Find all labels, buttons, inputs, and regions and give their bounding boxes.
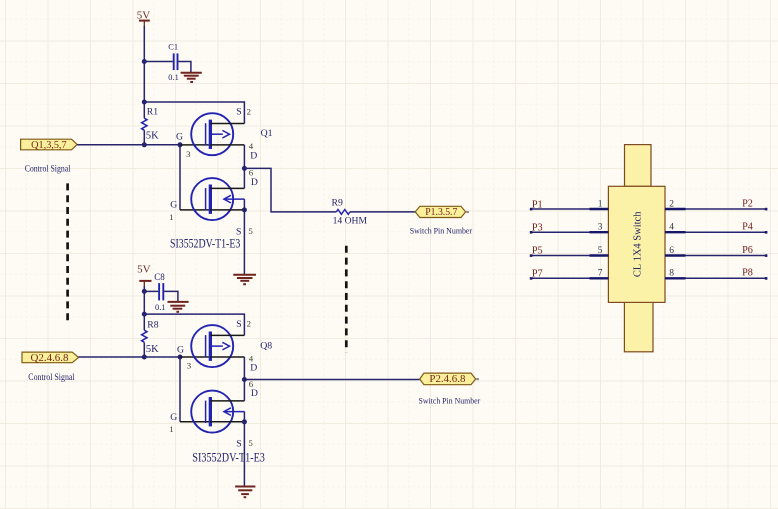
svg-text:2: 2 bbox=[247, 319, 251, 329]
svg-text:0.1: 0.1 bbox=[155, 303, 165, 312]
wire 5V down to gate wire (bottom) bbox=[143, 286, 145, 330]
port P1.3.5.7 bbox=[415, 206, 465, 218]
switch bottom tab bbox=[624, 302, 653, 351]
svg-text:C8: C8 bbox=[154, 272, 165, 282]
svg-text:S: S bbox=[236, 438, 241, 449]
wire C1 to ground bbox=[178, 62, 191, 74]
svg-text:P5: P5 bbox=[532, 246, 543, 257]
wire D node to R9 bbox=[244, 168, 336, 212]
node D junction bbox=[242, 166, 247, 171]
pin 7 bbox=[590, 277, 609, 279]
wire D node to port (bottom) bbox=[244, 379, 419, 381]
wire P7 bbox=[531, 277, 590, 279]
svg-text:Q2.4.6.8: Q2.4.6.8 bbox=[31, 353, 69, 364]
mosfet Q1b body bbox=[191, 178, 244, 220]
svg-text:5: 5 bbox=[248, 438, 253, 448]
svg-text:G: G bbox=[170, 412, 177, 423]
svg-text:P8: P8 bbox=[742, 268, 753, 279]
wire 5V rail down to gate wire bbox=[143, 26, 145, 118]
wire P8 bbox=[686, 277, 767, 279]
node S junction (bottom) bbox=[242, 419, 247, 424]
wire body to S junction bbox=[243, 199, 245, 210]
node C8 tap bbox=[142, 289, 147, 294]
node R1 top / rail bbox=[142, 100, 147, 105]
svg-text:C1: C1 bbox=[168, 42, 178, 51]
svg-text:1: 1 bbox=[169, 212, 173, 222]
wire R9 to port bbox=[350, 211, 415, 213]
pin 5 bbox=[590, 254, 609, 256]
node control/gate junction (bottom) bbox=[142, 355, 147, 360]
pin S5 of Q1b bbox=[210, 209, 244, 211]
node P2.4.6.8 connection stub bbox=[476, 378, 479, 380]
pin G3 of Q8a bbox=[180, 356, 209, 358]
svg-text:0.1: 0.1 bbox=[168, 73, 178, 82]
TOP SECTION bbox=[21, 9, 473, 352]
dashed continuation line (middle) bbox=[345, 246, 348, 352]
svg-text:Q8: Q8 bbox=[260, 340, 272, 351]
svg-text:SI3552DV-T1-E3: SI3552DV-T1-E3 bbox=[170, 236, 240, 250]
pin D4 of Q1a bbox=[210, 144, 244, 146]
mosfet Q8a body bbox=[191, 325, 233, 367]
wire body to S junction (bottom) bbox=[243, 412, 245, 422]
pin 8 bbox=[665, 277, 686, 279]
ground (Q1) bbox=[233, 275, 256, 284]
ground (Q8) bbox=[235, 487, 255, 498]
wire to C8 bbox=[144, 290, 158, 292]
svg-text:D: D bbox=[251, 388, 258, 399]
pin 1 bbox=[590, 208, 609, 210]
svg-text:P1: P1 bbox=[532, 199, 543, 210]
svg-text:R8: R8 bbox=[147, 320, 158, 331]
node control/gate junction bbox=[142, 142, 147, 147]
wire rail to S pin of Q8a bbox=[144, 314, 244, 335]
wire S5 to ground bbox=[243, 210, 245, 275]
mosfet Q1a body bbox=[191, 113, 233, 155]
wire control signal (bottom) bbox=[79, 356, 180, 358]
wire D6 up to node (bottom) bbox=[243, 380, 245, 401]
svg-text:Control Signal: Control Signal bbox=[28, 372, 75, 382]
power 5V (bottom) bbox=[137, 263, 151, 287]
BOTTOM SECTION bbox=[22, 263, 480, 497]
wire P6 bbox=[686, 255, 767, 257]
svg-text:P4: P4 bbox=[742, 222, 753, 233]
svg-text:5V: 5V bbox=[137, 9, 151, 21]
svg-text:P7: P7 bbox=[532, 269, 543, 280]
pin D6 of Q1b bbox=[210, 187, 244, 189]
svg-text:S: S bbox=[236, 319, 241, 330]
node gate tap bbox=[178, 142, 183, 147]
svg-text:SI3552DV-T1-E3: SI3552DV-T1-E3 bbox=[192, 451, 265, 465]
resistor R1 bbox=[142, 107, 159, 142]
component CL 1X4 Switch body bbox=[608, 186, 665, 302]
pin 4 bbox=[665, 231, 686, 233]
capacitor C8 bbox=[154, 272, 165, 312]
svg-text:5: 5 bbox=[598, 246, 603, 256]
pin S2 of Q1a bbox=[210, 122, 244, 124]
svg-text:4: 4 bbox=[669, 223, 674, 233]
svg-text:P3: P3 bbox=[532, 223, 543, 234]
pin 6 bbox=[665, 254, 686, 256]
svg-text:CL 1X4 Switch: CL 1X4 Switch bbox=[632, 211, 643, 277]
svg-text:Switch Pin Number: Switch Pin Number bbox=[419, 395, 481, 405]
pin 2 bbox=[665, 208, 686, 210]
svg-text:5K: 5K bbox=[146, 131, 159, 142]
wire D4 down to node bbox=[243, 145, 245, 169]
pin D6 of Q8b bbox=[210, 400, 244, 402]
svg-text:D: D bbox=[250, 150, 257, 161]
port P2.4.6.8 bbox=[420, 373, 476, 385]
wire to C1 bbox=[144, 61, 173, 63]
svg-text:5: 5 bbox=[248, 226, 253, 236]
svg-text:2: 2 bbox=[247, 106, 251, 116]
svg-text:P2.4.6.8: P2.4.6.8 bbox=[429, 374, 465, 385]
power 5V (top) bbox=[137, 9, 151, 27]
wire D4 down to node (bottom) bbox=[243, 357, 245, 380]
pin 3 bbox=[590, 231, 609, 233]
svg-text:3: 3 bbox=[186, 149, 191, 159]
wire gate to Q8b bbox=[179, 357, 181, 422]
wire C8 to ground bbox=[164, 291, 178, 301]
svg-text:G: G bbox=[170, 199, 177, 210]
svg-text:P6: P6 bbox=[742, 245, 753, 256]
wire P5 bbox=[531, 255, 590, 257]
wire P1 bbox=[531, 208, 590, 210]
port Q1,3,5,7 bbox=[21, 139, 78, 151]
svg-text:D: D bbox=[251, 177, 258, 188]
pin S5 of Q8b bbox=[210, 421, 244, 423]
svg-text:7: 7 bbox=[598, 269, 603, 279]
svg-text:Switch Pin Number: Switch Pin Number bbox=[410, 226, 472, 236]
svg-text:5V: 5V bbox=[137, 263, 151, 275]
resistor R8 bbox=[142, 320, 159, 355]
wire P3 bbox=[531, 231, 590, 233]
dashed continuation line (left) bbox=[66, 183, 69, 325]
node R8 top / rail bbox=[142, 312, 147, 317]
svg-text:14 OHM: 14 OHM bbox=[333, 216, 368, 226]
mosfet Q8b body bbox=[191, 391, 244, 433]
resistor R9 bbox=[332, 197, 368, 226]
svg-text:Control Signal: Control Signal bbox=[25, 163, 71, 173]
node D junction (bottom) bbox=[242, 377, 247, 382]
svg-text:5K: 5K bbox=[146, 344, 159, 355]
svg-text:8: 8 bbox=[669, 269, 674, 279]
SWITCH bbox=[530, 145, 768, 352]
svg-text:S: S bbox=[236, 107, 241, 118]
node P1.3.5.7 connection stub bbox=[466, 211, 469, 213]
capacitor C1 bbox=[168, 42, 178, 81]
pin G3 of Q1a bbox=[180, 144, 209, 146]
svg-text:3: 3 bbox=[598, 223, 603, 233]
wire below R8 bbox=[143, 342, 145, 357]
node gate tap (bottom) bbox=[178, 355, 183, 360]
wire below R1 bbox=[143, 130, 145, 145]
svg-text:G: G bbox=[177, 345, 184, 356]
svg-text:Q1: Q1 bbox=[261, 128, 273, 139]
pin D4 of Q8a bbox=[210, 356, 244, 358]
svg-text:P2: P2 bbox=[742, 198, 753, 209]
wire D6 up to node bbox=[243, 168, 245, 188]
svg-text:6: 6 bbox=[669, 246, 674, 256]
wire gate to Q1b bbox=[179, 145, 181, 210]
pin G1 of Q1b bbox=[180, 209, 209, 211]
wire S5 to ground (bottom) bbox=[243, 422, 245, 486]
pin S2 of Q8a bbox=[210, 334, 244, 336]
ground (C1) bbox=[181, 73, 202, 82]
svg-text:3: 3 bbox=[187, 361, 192, 371]
wire P2 bbox=[686, 208, 767, 210]
svg-text:Q1,3,5,7: Q1,3,5,7 bbox=[31, 140, 66, 151]
svg-text:1: 1 bbox=[598, 199, 603, 209]
svg-text:R9: R9 bbox=[332, 197, 343, 208]
svg-text:1: 1 bbox=[169, 424, 173, 434]
svg-text:2: 2 bbox=[669, 199, 674, 209]
wire rail to S pin of Q1a bbox=[144, 102, 244, 123]
svg-text:D: D bbox=[250, 363, 257, 374]
port Q2.4.6.8 bbox=[22, 352, 79, 364]
svg-text:P1.3.5.7: P1.3.5.7 bbox=[425, 207, 457, 218]
node S junction bbox=[242, 207, 247, 212]
wire control signal bbox=[77, 144, 180, 146]
svg-text:R1: R1 bbox=[147, 107, 158, 118]
wire P4 bbox=[686, 231, 767, 233]
node C1 tap bbox=[142, 59, 147, 64]
ground (C8) bbox=[168, 302, 189, 312]
switch top tab bbox=[625, 145, 652, 187]
svg-text:G: G bbox=[176, 131, 183, 142]
pin G1 of Q8b bbox=[180, 421, 209, 423]
